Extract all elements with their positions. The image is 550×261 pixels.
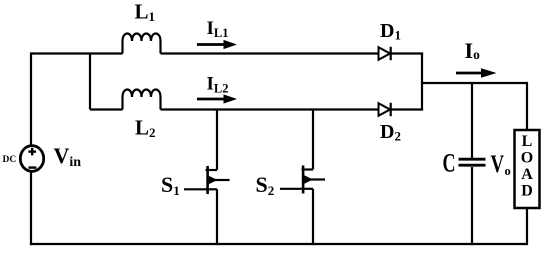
load box letters — [521, 133, 533, 200]
svg-text:A: A — [521, 166, 533, 183]
arrow I_L2 — [197, 94, 237, 103]
inductor L1 — [123, 34, 161, 54]
source minus sign — [28, 166, 36, 168]
wire capacitor top — [471, 83, 473, 158]
transistor S1 — [206, 166, 230, 194]
svg-text:O: O — [521, 150, 533, 167]
wire bottom rail — [30, 243, 527, 245]
wire D1 cathode to join — [391, 52, 423, 54]
wire output rail — [422, 83, 527, 130]
capacitor C plates — [459, 159, 486, 165]
wire second rail right of L2 to diode D2 — [161, 108, 379, 110]
inductor L2 — [123, 90, 161, 110]
load box — [515, 130, 540, 208]
wire S2 drain — [312, 110, 314, 170]
wire D2 cathode to join — [391, 108, 423, 110]
wire second rail left to L2 — [90, 108, 123, 110]
wire S2 gate lead — [280, 188, 302, 190]
source V_in circle — [20, 146, 43, 172]
wire left vertical bottom — [30, 171, 32, 245]
wire capacitor bottom — [471, 167, 473, 245]
wire S1 drain — [216, 110, 218, 171]
diode D1 — [379, 47, 391, 60]
wire S1 source — [216, 189, 218, 245]
arrow I_o — [456, 68, 497, 78]
wire S1 gate lead — [184, 188, 206, 190]
wire top rail right of L1 to diode D1 — [161, 52, 379, 54]
source plus sign — [28, 148, 36, 168]
node junction drop at x=90 — [89, 54, 91, 110]
transistor S2 — [302, 166, 326, 194]
wire load bottom — [526, 208, 528, 245]
wire left vertical top (source top to top rail) — [31, 54, 123, 147]
svg-text:L: L — [522, 133, 533, 150]
arrow I_L1 — [197, 40, 237, 49]
wire S2 source — [312, 189, 314, 245]
svg-text:C: C — [443, 149, 456, 178]
wire diode join vertical — [421, 54, 423, 110]
diode D2 — [379, 103, 391, 116]
svg-text:D: D — [521, 183, 533, 200]
svg-text:DC: DC — [3, 155, 17, 165]
